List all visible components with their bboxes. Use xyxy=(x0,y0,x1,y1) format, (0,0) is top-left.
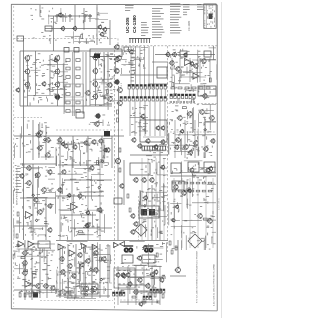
wire xyxy=(179,58,181,82)
page edge xyxy=(221,2,223,318)
wire xyxy=(212,178,214,248)
resistor R56 xyxy=(206,87,210,89)
transistor Q93 xyxy=(160,139,165,145)
diode xyxy=(35,219,38,222)
transistor Q84 xyxy=(114,79,120,85)
op-amp IC3 xyxy=(28,241,34,247)
label text xyxy=(16,168,22,193)
transistor Q87 xyxy=(160,125,165,130)
wire xyxy=(148,83,168,85)
block xyxy=(171,163,181,173)
wire xyxy=(159,266,161,305)
wire xyxy=(83,8,85,30)
transistor Q73 xyxy=(93,250,98,256)
wire xyxy=(59,244,61,298)
label text xyxy=(23,53,67,105)
label text xyxy=(169,49,216,103)
transistor Q29 xyxy=(85,90,91,96)
svg-text:4-417-028-11 GFT: 4-417-028-11 GFT xyxy=(137,283,139,300)
transistor Q118 xyxy=(171,52,176,58)
wire xyxy=(123,160,125,205)
block header xyxy=(90,49,122,57)
wire xyxy=(144,101,146,136)
capacitor C11 electrolytic xyxy=(104,131,110,137)
transistor Q90 xyxy=(137,143,142,149)
resistor R48 xyxy=(154,293,156,297)
wire xyxy=(82,52,84,114)
wire xyxy=(67,244,69,298)
wire xyxy=(160,89,162,97)
wire xyxy=(99,244,101,298)
wire xyxy=(197,178,199,248)
wire xyxy=(23,39,25,52)
diode xyxy=(98,186,101,189)
wire xyxy=(20,50,123,52)
transistor Q14 xyxy=(92,54,98,60)
transistor Q100 xyxy=(160,164,165,170)
wire xyxy=(151,185,153,240)
transistor Q10 xyxy=(54,55,60,61)
wire xyxy=(89,57,91,107)
resistor R36 xyxy=(67,291,71,293)
label text xyxy=(169,104,215,159)
wire xyxy=(35,51,37,95)
wire xyxy=(144,46,146,88)
title block xyxy=(204,4,216,29)
wire xyxy=(189,178,191,248)
wire bus xyxy=(14,135,124,137)
wire xyxy=(163,158,165,240)
transistor Q74 xyxy=(101,256,106,262)
wire xyxy=(118,86,120,160)
diode xyxy=(32,194,35,197)
svg-text:CX-1380: CX-1380 xyxy=(132,15,137,33)
wire xyxy=(72,136,74,168)
resistor R26 xyxy=(34,293,36,297)
op-amp IC9 xyxy=(82,244,87,249)
wire xyxy=(75,244,77,298)
wire dashed board outline xyxy=(56,282,113,284)
wire dashed board outline xyxy=(138,196,140,240)
transistor Q108 xyxy=(159,277,164,283)
wire xyxy=(184,120,186,158)
wire xyxy=(60,214,96,216)
resistor R2 xyxy=(66,59,70,62)
resistor R50 xyxy=(156,253,158,257)
transistor Q102 xyxy=(130,229,135,235)
resistor R69 xyxy=(184,190,188,192)
transistor Q42 xyxy=(103,148,108,153)
diode xyxy=(143,204,146,207)
wire xyxy=(95,60,97,106)
transistor Q147 xyxy=(175,204,179,209)
transistor Q21 xyxy=(53,58,57,63)
label text xyxy=(125,5,134,11)
resistor R53 xyxy=(185,87,189,89)
transistor Q32 xyxy=(95,113,101,119)
label text xyxy=(14,245,54,295)
wire xyxy=(32,120,34,160)
wire xyxy=(87,160,89,240)
transistor Q79 xyxy=(90,286,96,293)
resistor R9 xyxy=(76,84,80,87)
wire xyxy=(156,89,158,97)
transistor Q16 xyxy=(92,81,98,87)
wire xyxy=(120,299,160,301)
transistor Q138 xyxy=(189,167,194,173)
relay RY3 xyxy=(74,48,79,53)
transistor Q145 xyxy=(187,188,191,193)
resistor R19 xyxy=(16,234,18,238)
transistor Q55 xyxy=(89,165,94,171)
transistor Q114 xyxy=(136,255,141,261)
transistor Q18 xyxy=(116,55,122,61)
label text xyxy=(33,31,108,43)
transistor Q119 xyxy=(169,60,174,66)
wire xyxy=(71,160,73,240)
transistor Q61 xyxy=(84,223,89,228)
transistor Q35 xyxy=(63,143,68,149)
resistor R37 xyxy=(117,110,119,114)
wire xyxy=(27,60,29,106)
transistor Q143 xyxy=(207,218,213,224)
transistor Q12 xyxy=(54,81,60,87)
transistor Q53 xyxy=(33,197,38,203)
op-amp IC4 xyxy=(25,281,32,288)
wire xyxy=(107,244,109,298)
wire xyxy=(63,52,65,114)
transistor Q115 xyxy=(142,245,147,251)
transistor Q129 xyxy=(209,115,215,121)
transistor Q9 xyxy=(24,81,30,87)
label text xyxy=(56,243,110,294)
capacitor xyxy=(103,97,106,99)
transistor Q112 xyxy=(120,272,125,278)
op-amp IC7 xyxy=(185,59,192,66)
block xyxy=(204,51,211,57)
label text xyxy=(15,121,54,158)
capacitor xyxy=(143,220,146,222)
wire xyxy=(58,164,100,166)
resistor R31 xyxy=(64,291,66,295)
wire xyxy=(20,197,56,199)
wire xyxy=(45,28,110,30)
resistor R14 xyxy=(66,110,70,113)
label text xyxy=(197,4,203,10)
transistor Q76 xyxy=(71,273,76,279)
transistor Q128 xyxy=(199,109,205,115)
transistor Q23 xyxy=(15,87,20,92)
transistor Q83 xyxy=(114,68,119,74)
capacitor xyxy=(44,222,47,224)
wire xyxy=(120,74,168,76)
wire mesh xyxy=(97,57,118,100)
label text xyxy=(58,169,104,240)
wire xyxy=(101,136,103,168)
transistor Q144 xyxy=(208,166,213,172)
wire xyxy=(87,136,89,168)
transistor Q8 xyxy=(24,68,30,74)
resistor R55 xyxy=(199,87,203,89)
wire xyxy=(73,52,75,116)
transistor Q63 xyxy=(22,250,28,256)
wire mesh xyxy=(14,166,55,238)
wire main rail xyxy=(23,51,25,240)
transistor Q85 xyxy=(128,49,133,55)
resistor R59 xyxy=(182,107,186,109)
resistor R4 xyxy=(66,67,70,70)
wire xyxy=(139,101,141,136)
resistor R46 xyxy=(162,294,164,298)
transistor Q120 xyxy=(175,66,180,72)
connector CN7 xyxy=(150,289,165,293)
wire dashed xyxy=(14,117,42,119)
wire xyxy=(14,225,48,227)
resistor R23 xyxy=(19,293,21,297)
wire xyxy=(171,58,173,82)
resistor R13 xyxy=(76,101,80,104)
resistor R57 xyxy=(172,83,174,87)
label text xyxy=(14,163,54,237)
transistor Q57 xyxy=(77,193,82,199)
wire xyxy=(45,125,47,160)
label text xyxy=(86,80,110,125)
wire mesh xyxy=(55,242,112,294)
label text xyxy=(131,50,135,85)
resistor R30 xyxy=(59,291,61,295)
transistor Q26 xyxy=(37,145,43,151)
wire xyxy=(209,58,211,82)
op-amp IC2 xyxy=(18,241,24,247)
wire xyxy=(155,158,157,240)
wire xyxy=(136,89,138,97)
resistor R35 xyxy=(92,288,94,292)
capacitor xyxy=(31,291,34,293)
wire xyxy=(147,158,149,240)
block xyxy=(122,255,133,263)
wire xyxy=(32,164,34,240)
wire xyxy=(116,269,150,271)
wire xyxy=(159,150,161,240)
title block divider xyxy=(205,4,207,29)
wire xyxy=(99,160,101,240)
transistor Q37 xyxy=(83,140,88,146)
resistor R74 xyxy=(203,218,207,220)
wire xyxy=(144,89,146,97)
resistor R34 xyxy=(84,248,86,252)
block xyxy=(114,198,122,204)
capacitor xyxy=(159,231,162,233)
transistor Q134 xyxy=(210,138,215,144)
wire xyxy=(20,163,56,165)
wire xyxy=(49,55,51,95)
transistor Q4 xyxy=(102,27,107,32)
wire xyxy=(96,5,98,45)
diode D2 xyxy=(62,15,65,18)
wire xyxy=(64,179,112,181)
connector pads xyxy=(170,101,195,103)
wire xyxy=(170,175,216,177)
resistor R58 xyxy=(209,78,211,82)
resistor R29 xyxy=(24,270,28,272)
relay RY2 xyxy=(64,48,69,53)
wire xyxy=(109,20,111,45)
wire mesh xyxy=(169,104,217,158)
resistor R32 xyxy=(69,291,71,295)
transistor Q81 xyxy=(114,44,119,50)
border frame xyxy=(11,4,217,311)
transistor Q20 xyxy=(117,100,123,106)
block xyxy=(198,86,216,96)
transistor Q148 xyxy=(174,267,180,274)
wire xyxy=(31,248,33,300)
op-amp IC8 xyxy=(193,73,199,79)
resistor R63 xyxy=(190,182,194,184)
border frame inner dashed xyxy=(13,6,15,307)
transistor Q133 xyxy=(203,146,209,152)
transistor Q6 xyxy=(99,32,104,37)
wire xyxy=(174,120,176,158)
transistor Q48 xyxy=(47,169,52,175)
transistor Q31 xyxy=(107,96,113,102)
resistor R43 xyxy=(127,194,129,198)
block xyxy=(124,47,129,51)
wire xyxy=(14,289,56,291)
transistor Q19 xyxy=(117,87,123,93)
transistor Q3 xyxy=(97,24,102,29)
wire xyxy=(194,120,196,158)
wire xyxy=(127,266,129,305)
diode xyxy=(101,160,104,163)
resistor R47 xyxy=(120,291,122,295)
wire dashed board outline xyxy=(117,39,119,46)
wire xyxy=(159,101,161,136)
transistor Q25 xyxy=(45,137,51,143)
wire xyxy=(140,89,142,97)
connector CN5 xyxy=(113,292,125,296)
wire xyxy=(39,248,41,298)
resistor R21 xyxy=(60,189,62,193)
wire xyxy=(117,160,119,240)
wire xyxy=(84,18,86,22)
wire xyxy=(62,18,64,22)
wire mesh xyxy=(90,79,112,126)
wire mesh xyxy=(130,106,148,134)
resistor R15 xyxy=(76,110,80,113)
transistor Q99 xyxy=(143,195,148,201)
diode D1 xyxy=(56,15,59,18)
transistor Q49 xyxy=(37,209,43,215)
wire xyxy=(177,240,179,268)
resistor R22 xyxy=(78,231,82,233)
resistor R70 xyxy=(190,190,194,192)
wire xyxy=(135,266,137,305)
title block logo xyxy=(209,14,213,20)
resistor R60 xyxy=(172,182,176,184)
block fuse F1 xyxy=(17,36,24,41)
transistor Q135 xyxy=(174,144,179,150)
transistor Q125 xyxy=(183,52,187,57)
wire xyxy=(139,190,141,205)
wire xyxy=(83,244,85,298)
wire xyxy=(164,89,166,97)
transistor Q13 xyxy=(54,94,60,100)
wire xyxy=(39,5,41,16)
wire xyxy=(89,18,91,22)
wire xyxy=(205,178,207,248)
connector CN6 xyxy=(170,94,195,99)
wire xyxy=(24,240,26,300)
wire xyxy=(189,58,191,82)
transistor Q5 xyxy=(57,12,62,17)
transistor Q1 xyxy=(60,26,65,31)
resistor R71 xyxy=(196,190,200,192)
resistor R66 xyxy=(208,182,212,184)
transistor Q137 xyxy=(188,150,193,156)
diode xyxy=(99,210,102,213)
wire xyxy=(153,46,155,88)
wire xyxy=(181,178,183,248)
block xyxy=(188,162,199,172)
wire mesh xyxy=(50,31,94,44)
wire mesh xyxy=(56,169,105,237)
block output pair xyxy=(81,284,98,294)
transistor Q89 xyxy=(131,137,136,143)
transistor Q43 xyxy=(60,141,64,146)
resistor R68 xyxy=(178,190,182,192)
wire mesh xyxy=(13,243,55,296)
resistor R73 xyxy=(208,190,212,192)
transistor Q123 xyxy=(202,93,207,99)
resistor R10 xyxy=(66,93,70,96)
capacitor C30 xyxy=(141,209,147,216)
label text xyxy=(183,4,190,15)
wire xyxy=(143,266,145,305)
wire xyxy=(134,101,136,136)
label text xyxy=(98,53,117,101)
resistor R6 xyxy=(66,76,70,79)
wire xyxy=(152,61,168,63)
diode xyxy=(89,268,92,271)
wire mesh xyxy=(49,8,108,24)
op-amp IC11 xyxy=(114,243,119,248)
transformer T1 xyxy=(33,292,38,298)
wire dashed board outline xyxy=(56,129,124,131)
wire mesh xyxy=(116,47,148,74)
transistor Q110 xyxy=(127,281,132,287)
wire xyxy=(132,89,134,97)
wire mesh xyxy=(139,145,167,238)
transistor Q65 xyxy=(22,270,28,276)
transistor Q80 xyxy=(79,262,84,267)
transistor Q69 xyxy=(59,256,64,262)
resistor R3 xyxy=(76,59,80,62)
transistor Q105 xyxy=(133,289,138,295)
block xyxy=(139,206,159,218)
transistor Q94 xyxy=(133,177,138,183)
resistor R7 xyxy=(76,76,80,79)
transistor Q109 xyxy=(121,273,126,279)
transistor Q116 xyxy=(149,272,154,277)
wire xyxy=(148,89,150,97)
block xyxy=(38,241,50,248)
wire dashed board outline xyxy=(169,103,217,105)
wire xyxy=(59,136,61,168)
wire xyxy=(173,178,175,248)
transistor Q30 xyxy=(107,82,113,88)
wire xyxy=(199,58,201,82)
transistor Q142 xyxy=(197,213,203,219)
